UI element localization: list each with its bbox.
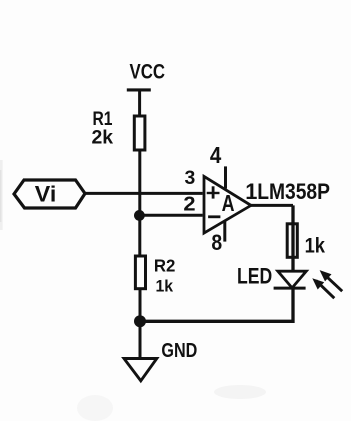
svg-text:Vi: Vi [35,181,57,206]
svg-text:8: 8 [211,230,222,255]
svg-text:1k: 1k [305,232,326,257]
svg-text:2k: 2k [92,127,114,149]
svg-text:R2: R2 [154,256,176,276]
svg-text:3: 3 [185,167,196,189]
svg-text:2: 2 [183,193,195,216]
svg-text:1: 1 [245,179,257,204]
svg-text:LED: LED [237,263,272,288]
svg-text:1k: 1k [156,278,174,296]
svg-text:GND: GND [161,339,197,362]
svg-text:A: A [222,190,235,216]
svg-text:VCC: VCC [130,60,166,84]
svg-text:LM358P: LM358P [257,179,330,204]
svg-text:4: 4 [210,142,222,168]
